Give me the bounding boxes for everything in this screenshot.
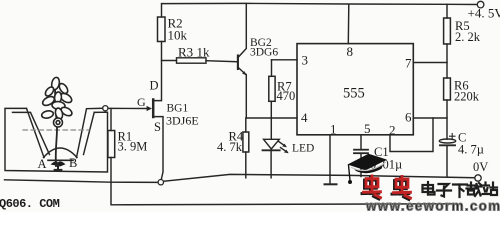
svg-text:R3: R3	[178, 45, 193, 60]
pot inner lip left	[13, 112, 50, 154]
wire R5 bottom to pin7 node to R6 top	[446, 44, 448, 78]
watermark dianzi xiazaizhan characters	[423, 182, 498, 197]
transistor BG2 collector	[238, 4, 247, 58]
transistor Q BG2 base bar	[237, 56, 239, 70]
wire BG1 source lead to rail junction	[154, 117, 163, 180]
plant leaves	[41, 77, 73, 127]
char xia	[453, 185, 467, 198]
wire R4 top lead	[245, 118, 247, 132]
svg-text:3: 3	[302, 53, 309, 68]
svg-text:6: 6	[405, 110, 412, 125]
svg-text:B: B	[69, 156, 77, 170]
resistor R3	[177, 58, 207, 63]
wire R1 bottom return line to 0V	[111, 158, 452, 205]
svg-text:3DJ6E: 3DJ6E	[166, 113, 199, 127]
svg-text:555: 555	[343, 86, 365, 102]
wire bottom ground rail	[5, 180, 158, 183]
IC U1 555 timer box	[297, 44, 413, 135]
wire 555 pin4 to emitter/R4 node	[246, 117, 297, 119]
svg-text:www.eeworm.com: www.eeworm.com	[365, 199, 500, 213]
svg-text:Q606. COM: Q606. COM	[0, 197, 60, 211]
transistor BG1 JFET channel bar	[152, 100, 155, 118]
node gate junction circle at pot	[103, 106, 108, 111]
wire LED cathode to ground rail	[270, 150, 272, 178]
pot cup dome arc	[44, 148, 78, 158]
node BG1 source junction circle	[158, 180, 163, 185]
resistor R2	[158, 17, 166, 42]
svg-text:1k: 1k	[197, 45, 211, 60]
char zai	[467, 183, 482, 197]
wire 555 pin7 to R5/R6 junction	[413, 62, 447, 64]
svg-text:2. 2k: 2. 2k	[455, 30, 481, 44]
node +4.5V terminal	[477, 1, 484, 8]
resistor R1	[108, 131, 115, 158]
wire R2 bottom to BG1 drain	[154, 42, 162, 101]
resistor R7	[269, 76, 275, 101]
electrode assembly black	[48, 159, 73, 161]
wire C bottom to ground rail	[446, 145, 448, 177]
water level dashed line	[23, 129, 89, 131]
wire R7 bottom to LED anode	[270, 101, 272, 139]
wire 555 pin5 to C1	[360, 135, 362, 150]
watermark logo hat	[348, 154, 388, 184]
plant stem	[55, 83, 57, 166]
svg-text:LED: LED	[292, 143, 314, 155]
wire 555 pin3 to R7	[272, 59, 298, 61]
svg-text:2: 2	[389, 123, 396, 138]
wire top supply rail	[162, 3, 477, 4]
wire 555 pin8 to rail	[347, 4, 350, 43]
svg-text:+4. 5V: +4. 5V	[468, 6, 500, 21]
pot tank outline	[5, 108, 108, 172]
pot V funnel inner wall right	[84, 112, 95, 154]
char dian	[423, 182, 435, 195]
svg-text:1: 1	[330, 122, 337, 137]
svg-text:10k: 10k	[168, 28, 188, 43]
wire BG2 emitter down to pin4 node	[245, 75, 247, 119]
svg-text:0V: 0V	[473, 160, 488, 174]
transistor BG2 emitter with arrow	[238, 67, 246, 75]
diode LED symbol	[264, 139, 280, 149]
wire 555 pin1 to ground rail	[329, 135, 331, 175]
resistor R6	[444, 78, 451, 100]
capacitor C polarity plus	[450, 135, 456, 137]
wire R3 left lead	[162, 60, 177, 62]
svg-text:470: 470	[277, 89, 296, 103]
LED emission arrows	[279, 142, 286, 147]
svg-text:7: 7	[405, 56, 412, 71]
wire gate from pot node to BG1 with arrow	[108, 107, 147, 109]
svg-text:G: G	[137, 95, 146, 109]
wire 555 pin2 tie to pin6	[390, 118, 433, 152]
svg-text:4. 7µ: 4. 7µ	[458, 143, 484, 157]
svg-text:A: A	[38, 157, 47, 171]
resistor R4	[243, 132, 249, 152]
svg-text:8: 8	[347, 44, 354, 59]
wire C1 to ground rail	[360, 153, 362, 176]
svg-text:3. 9M: 3. 9M	[118, 140, 148, 154]
wire R3 to BG2 base	[206, 61, 237, 62]
wire R7 top lead	[271, 60, 273, 77]
svg-text:4: 4	[301, 110, 308, 125]
svg-text:D: D	[150, 79, 159, 93]
svg-text:4. 7k: 4. 7k	[217, 140, 243, 154]
svg-text:S: S	[154, 120, 161, 134]
svg-text:5: 5	[364, 121, 371, 136]
ground symbol	[329, 175, 331, 184]
capacitor C1 plates	[354, 149, 368, 151]
watermark chong chong red characters	[362, 176, 411, 200]
wire R1 top lead	[110, 109, 112, 131]
char zhan	[483, 183, 498, 196]
wire R6 bottom through pin6 node to C top	[446, 100, 448, 139]
wire 555 pin6 to R6/C junction	[413, 117, 447, 119]
resistor R5	[444, 18, 451, 44]
svg-text:3DG6: 3DG6	[250, 46, 278, 58]
char zi	[437, 184, 451, 197]
node 0V terminal	[475, 175, 481, 181]
wire R2 branch vertical (rail to R2 top)	[161, 4, 163, 17]
capacitor C electrolytic plates	[439, 139, 455, 143]
wire right branch rail to R5	[446, 4, 448, 18]
wire R4 bottom to ground rail	[245, 152, 247, 178]
svg-text:220k: 220k	[454, 90, 480, 104]
pot V funnel outer wall	[27, 108, 45, 157]
